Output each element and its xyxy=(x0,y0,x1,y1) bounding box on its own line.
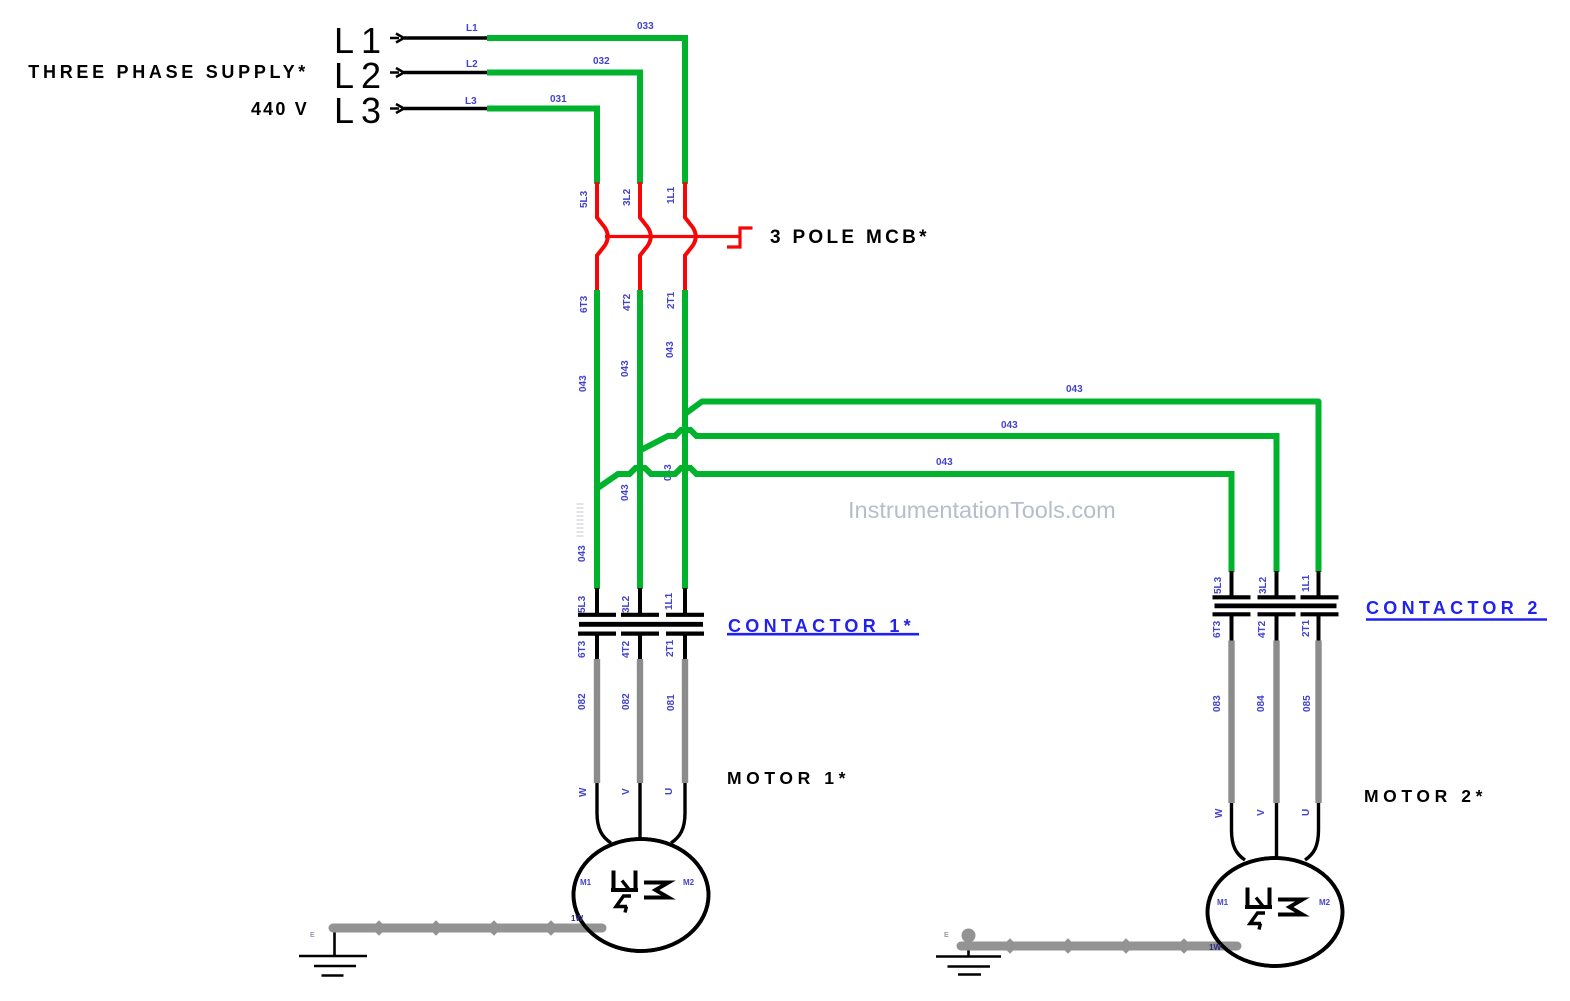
wire motor2 lead 2 (black) xyxy=(1275,803,1278,862)
ground wire motor2 (thick gray) xyxy=(961,942,1237,951)
wire motor2 lead 3 (black) xyxy=(1305,803,1319,860)
motor M1 body xyxy=(574,839,709,951)
contactor K1 moving plate pole 1 xyxy=(578,631,616,635)
wire motor1 lead 3 (black) xyxy=(671,783,685,843)
svg-text:1L1: 1L1 xyxy=(664,592,675,610)
svg-text:083: 083 xyxy=(1212,695,1223,712)
motor M2 body outline (over earth wire) xyxy=(1208,858,1343,966)
breaker MCB pole 1 (red) xyxy=(597,182,608,292)
arrow L1 xyxy=(390,34,404,43)
wire phase 2 green vertical xyxy=(637,290,643,589)
svg-text:2T1: 2T1 xyxy=(666,291,677,309)
svg-text:043: 043 xyxy=(620,484,631,501)
contactor K1 fixed plate pole 2 xyxy=(621,613,659,617)
wire motor2 lead 1 (black) xyxy=(1232,803,1246,860)
svg-text:U: U xyxy=(664,788,675,795)
svg-text:L1: L1 xyxy=(466,23,478,34)
svg-text:CONTACTOR 2: CONTACTOR 2 xyxy=(1366,598,1542,618)
svg-text:043: 043 xyxy=(620,360,631,377)
wire L2 black xyxy=(404,71,487,74)
svg-text:1W: 1W xyxy=(571,914,583,923)
wire motor1 lead 1 (black) xyxy=(597,783,611,843)
svg-text:2T1: 2T1 xyxy=(665,639,676,657)
wire motor2 gray pole 1 xyxy=(1228,641,1234,804)
svg-text:4T2: 4T2 xyxy=(1257,620,1268,638)
arrow L2 xyxy=(390,68,404,77)
svg-text:082: 082 xyxy=(621,693,632,710)
motor M2 body xyxy=(1208,858,1343,966)
MCB handle (red) xyxy=(727,228,753,247)
svg-text:043: 043 xyxy=(1001,420,1018,431)
contactor K1 fixed plate pole 1 xyxy=(578,613,616,617)
contactor K2 moving plate pole 3 xyxy=(1301,612,1339,616)
svg-text:031: 031 xyxy=(550,94,567,105)
svg-text:M2: M2 xyxy=(1319,898,1331,907)
contactor K1 bridge bar xyxy=(579,622,703,627)
svg-text:4T2: 4T2 xyxy=(621,640,632,658)
wire branch phase B to contactor 2 (green, hop over phase A) xyxy=(640,430,1277,572)
motor M2 symbol 3 (rotated) xyxy=(1245,888,1272,910)
wire branch phase A to contactor 2 (green) xyxy=(685,402,1319,573)
wire label 043 (phase3 lower faint) xyxy=(577,503,584,539)
svg-text:E: E xyxy=(944,932,949,939)
svg-text:InstrumentationTools.com: InstrumentationTools.com xyxy=(848,497,1116,523)
wire branch phase C to contactor 2 (green, hops over B and A) xyxy=(597,468,1232,572)
svg-text:2T1: 2T1 xyxy=(1301,619,1312,637)
svg-text:M2: M2 xyxy=(683,878,695,887)
svg-text:081: 081 xyxy=(666,694,677,711)
wire L3 green xyxy=(487,109,597,185)
svg-text:V: V xyxy=(1256,809,1267,816)
svg-text:032: 032 xyxy=(593,56,610,67)
svg-text:L3: L3 xyxy=(465,96,477,107)
arrow L3 xyxy=(390,104,404,113)
motor M1 body outline (over earth wire) xyxy=(574,839,709,951)
svg-text:043: 043 xyxy=(1066,384,1083,395)
svg-text:3L2: 3L2 xyxy=(621,595,632,613)
contactor K2 fixed plate pole 3 xyxy=(1301,595,1339,599)
wire L3 black xyxy=(404,107,487,110)
contactor K1 stub pole 1 xyxy=(595,588,599,613)
svg-text:5L3: 5L3 xyxy=(579,190,590,208)
contactor K2 stub pole 1 xyxy=(1230,571,1234,596)
ground 2 lead xyxy=(967,946,970,957)
svg-text:M1: M1 xyxy=(1217,898,1229,907)
svg-text:E: E xyxy=(310,932,315,939)
contactor K1 moving plate pole 2 xyxy=(621,631,659,635)
svg-text:U: U xyxy=(1301,809,1312,816)
wire L1 green xyxy=(487,38,685,184)
svg-text:1W: 1W xyxy=(1209,943,1221,952)
motor M2 symbol M (rotated) xyxy=(1278,900,1303,915)
contactor K1 stub pole 2 xyxy=(638,588,642,613)
ground wire motor2 joints xyxy=(1002,938,1192,954)
svg-text:5L3: 5L3 xyxy=(577,595,588,613)
svg-text:085: 085 xyxy=(1302,695,1313,712)
label CONTACTOR 1* underline xyxy=(727,633,919,636)
svg-text:M1: M1 xyxy=(580,878,592,887)
MCB trip bar (red) xyxy=(605,235,740,238)
svg-text:6T3: 6T3 xyxy=(579,295,590,313)
svg-text:043: 043 xyxy=(577,545,588,562)
wire motor1 gray pole 3 xyxy=(682,659,688,783)
motor M1 symbol tilde (rotated) xyxy=(616,896,631,913)
svg-text:3L2: 3L2 xyxy=(622,188,633,206)
svg-text:MOTOR 2*: MOTOR 2* xyxy=(1364,786,1487,806)
svg-text:1L1: 1L1 xyxy=(1301,574,1312,592)
label CONTACTOR 2 underline xyxy=(1366,618,1547,620)
wire motor1 lead 2 (black) xyxy=(638,783,641,845)
svg-text:082: 082 xyxy=(577,693,588,710)
svg-text:THREE PHASE SUPPLY*: THREE PHASE SUPPLY* xyxy=(28,62,309,82)
ground 1 symbol xyxy=(299,956,367,976)
svg-text:5L3: 5L3 xyxy=(1213,576,1224,594)
svg-text:6T3: 6T3 xyxy=(1212,620,1223,638)
svg-text:L3: L3 xyxy=(334,90,388,131)
contactor K1 moving plate pole 3 xyxy=(666,631,704,635)
ground wire motor1 joints xyxy=(371,920,559,936)
contactor K2 bridge bar xyxy=(1215,604,1337,609)
svg-text:1L1: 1L1 xyxy=(666,186,677,204)
contactor K2 stub pole 2 xyxy=(1275,571,1279,596)
wire motor1 gray pole 2 xyxy=(637,659,643,783)
contactor K2 moving plate pole 2 xyxy=(1258,612,1296,616)
svg-text:3 POLE MCB*: 3 POLE MCB* xyxy=(770,227,930,248)
svg-text:043: 043 xyxy=(665,341,676,358)
svg-text:3L2: 3L2 xyxy=(1258,576,1269,594)
motor M1 symbol 3 (rotated) xyxy=(611,871,638,893)
svg-text:043: 043 xyxy=(936,457,953,468)
wire motor2 gray pole 2 xyxy=(1273,641,1279,804)
svg-text:084: 084 xyxy=(1256,695,1267,712)
svg-text:W: W xyxy=(578,787,589,797)
contactor K1 stem pole 3 xyxy=(683,635,687,659)
wire phase 3 green vertical xyxy=(594,290,600,589)
svg-text:L2: L2 xyxy=(466,59,478,70)
svg-text:4T2: 4T2 xyxy=(622,293,633,311)
ground wire motor1 (thick gray) xyxy=(333,924,602,933)
contactor K2 stem pole 3 xyxy=(1317,616,1321,641)
motor M2 symbol tilde (rotated) xyxy=(1250,913,1265,930)
contactor K2 stub pole 3 xyxy=(1317,571,1321,596)
svg-text:W: W xyxy=(1214,808,1225,818)
contactor K2 fixed plate pole 1 xyxy=(1213,595,1251,599)
svg-text:440 V: 440 V xyxy=(251,99,309,119)
contactor K2 moving plate pole 1 xyxy=(1213,612,1251,616)
ground wire motor2 end knot xyxy=(962,929,976,943)
contactor K2 stem pole 1 xyxy=(1230,616,1234,641)
svg-text:043: 043 xyxy=(578,375,589,392)
contactor K1 stem pole 1 xyxy=(595,635,599,659)
svg-text:6T3: 6T3 xyxy=(577,640,588,658)
contactor K2 fixed plate pole 2 xyxy=(1258,595,1296,599)
wire motor2 gray pole 3 xyxy=(1315,641,1321,804)
ground 1 lead xyxy=(333,928,336,956)
wire motor1 gray pole 1 xyxy=(594,659,600,783)
svg-text:V: V xyxy=(621,788,632,795)
contactor K1 fixed plate pole 3 xyxy=(666,613,704,617)
contactor K1 stub pole 3 xyxy=(683,588,687,613)
breaker MCB pole 3 (red) xyxy=(685,182,696,292)
svg-text:033: 033 xyxy=(637,21,654,32)
wire L1 black xyxy=(404,36,487,39)
wire L2 green xyxy=(487,73,640,185)
ground 2 symbol xyxy=(936,957,1001,975)
wire phase 1 green vertical xyxy=(682,290,688,589)
contactor K2 stem pole 2 xyxy=(1275,616,1279,641)
motor M1 symbol M (rotated) xyxy=(644,883,669,898)
contactor K1 stem pole 2 xyxy=(638,635,642,659)
breaker MCB pole 2 (red) xyxy=(640,182,651,292)
svg-text:MOTOR 1*: MOTOR 1* xyxy=(727,768,850,788)
